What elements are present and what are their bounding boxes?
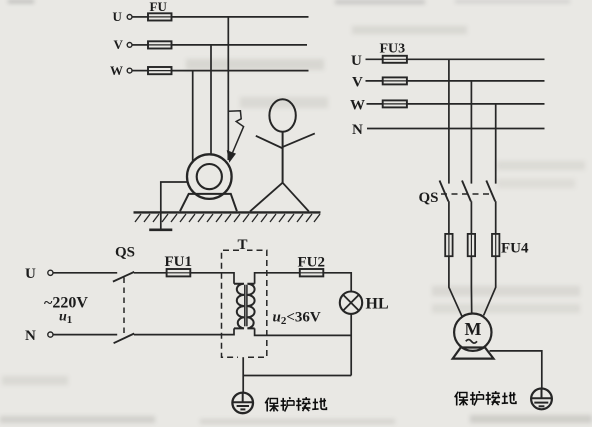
transformer secondary winding: [247, 284, 254, 329]
person body: [282, 132, 284, 183]
wire: [366, 80, 383, 82]
earth terminal (right): protective earth symbol: [531, 389, 552, 410]
fuse FU3 (V phase): [383, 77, 407, 84]
wire: [132, 70, 148, 72]
wire drop from V phase: [470, 81, 472, 184]
wire N to transformer primary: [134, 328, 234, 334]
svg-text:V: V: [114, 37, 124, 52]
wire V phase line: [172, 44, 308, 46]
wire drop from U phase: [448, 59, 450, 183]
wire secondary top lead: [255, 273, 300, 284]
svg-text:W: W: [350, 98, 365, 114]
wire: [53, 272, 117, 274]
svg-text:HL: HL: [366, 296, 389, 313]
person left arm: [256, 136, 283, 149]
earth electrode bar: [149, 229, 172, 232]
node U (220V input): [25, 266, 53, 282]
transformer primary winding: [234, 284, 244, 329]
svg-text:FU2: FU2: [298, 255, 326, 271]
wire to motor phase 1: [449, 256, 462, 316]
wire U phase line: [172, 16, 309, 18]
node V (left supply): [114, 37, 133, 52]
transformer T dashed enclosure: [222, 250, 267, 357]
wire: [366, 58, 383, 60]
svg-text:FU1: FU1: [165, 254, 193, 270]
motor inner circle: [197, 164, 222, 189]
svg-text:M: M: [465, 319, 482, 339]
person right leg: [283, 183, 309, 212]
svg-text:N: N: [352, 122, 363, 138]
wire motor frame to earth: [161, 182, 187, 230]
wire: [367, 103, 383, 105]
wire U phase line: [407, 58, 545, 60]
text 保护接地 (right): [455, 391, 516, 405]
svg-text:U: U: [351, 53, 362, 69]
fuse FU (U phase): [148, 0, 172, 21]
wire secondary bottom lead: [255, 328, 352, 335]
svg-text:QS: QS: [115, 245, 135, 261]
transformer core: [245, 285, 247, 327]
ground hatching: [135, 214, 320, 222]
svg-text:U: U: [25, 266, 36, 282]
motor (shocked) outer frame: [187, 154, 232, 199]
switch QS linkage (dashed): [123, 278, 125, 338]
motor base pedestal (right): [453, 348, 494, 359]
wire: [132, 16, 148, 18]
switch QS upper pole: [113, 272, 134, 282]
motor base pedestal: [180, 194, 237, 211]
switch QS lower pole: [114, 334, 135, 344]
wire motor frame to earth (right): [490, 351, 542, 389]
fuse FU (W phase): [148, 67, 172, 74]
wire to motor phase 2: [470, 256, 472, 313]
fuse FU1: [165, 254, 193, 276]
wire W phase line: [172, 70, 309, 72]
person left leg: [250, 183, 283, 212]
fuse FU3 (U phase): [383, 56, 407, 63]
wire drop from W phase: [495, 104, 497, 184]
switch QS linkage (dashed): [441, 193, 493, 195]
switch QS pole 2: [462, 181, 471, 234]
wire: [134, 272, 167, 274]
node W (left supply): [110, 63, 132, 78]
wire drop from U to motor: [227, 17, 229, 160]
wire W phase line: [407, 103, 545, 105]
earth terminal (left): protective earth symbol: [232, 393, 253, 414]
wire drop from V to motor: [210, 45, 212, 155]
svg-text:V: V: [352, 75, 363, 91]
fuse FU (V phase): [148, 41, 172, 48]
wire N line: [367, 128, 545, 130]
svg-text:N: N: [25, 328, 36, 344]
fuse FU4 pole 2: [468, 234, 475, 256]
svg-text:FU: FU: [150, 0, 168, 14]
node N (220V input): [25, 328, 53, 344]
svg-text:u2<36V: u2<36V: [273, 310, 321, 328]
motor M circle: [454, 314, 491, 351]
wire lamp bottom: [350, 314, 352, 376]
switch QS pole 1: [440, 181, 449, 234]
text 保护接地 (left): [265, 397, 326, 411]
svg-text:T: T: [238, 237, 248, 253]
svg-text:FU3: FU3: [380, 42, 406, 57]
lightning arrow (fault current): [227, 111, 243, 162]
svg-text:QS: QS: [419, 190, 439, 206]
lamp HL: [340, 292, 389, 314]
svg-text:W: W: [110, 63, 123, 78]
wire V phase line: [407, 80, 545, 82]
svg-text:FU4: FU4: [501, 241, 529, 257]
wire: [132, 44, 148, 46]
fuse FU3 (W phase): [383, 100, 407, 107]
wire to earth junction: [243, 375, 351, 377]
wire to transformer primary: [190, 273, 234, 284]
person right arm: [283, 133, 315, 146]
wire drop from W to motor: [192, 71, 194, 162]
ground line (hatched earth): [134, 211, 321, 213]
wire transformer screen to earth: [242, 357, 244, 392]
node U (left supply): [113, 9, 133, 24]
switch QS pole 3: [486, 181, 495, 234]
svg-text:U: U: [113, 9, 123, 24]
fuse FU4 pole 3: [492, 234, 499, 256]
wire: [53, 334, 117, 336]
wire to motor phase 3: [484, 256, 496, 315]
fuse FU2: [298, 255, 326, 277]
wire to lamp: [323, 273, 351, 292]
person (electric shock victim) head: [269, 99, 295, 131]
svg-text:u1: u1: [59, 310, 72, 327]
motor ~ mark: [466, 340, 477, 344]
fuse FU4 pole 1: [445, 234, 452, 256]
